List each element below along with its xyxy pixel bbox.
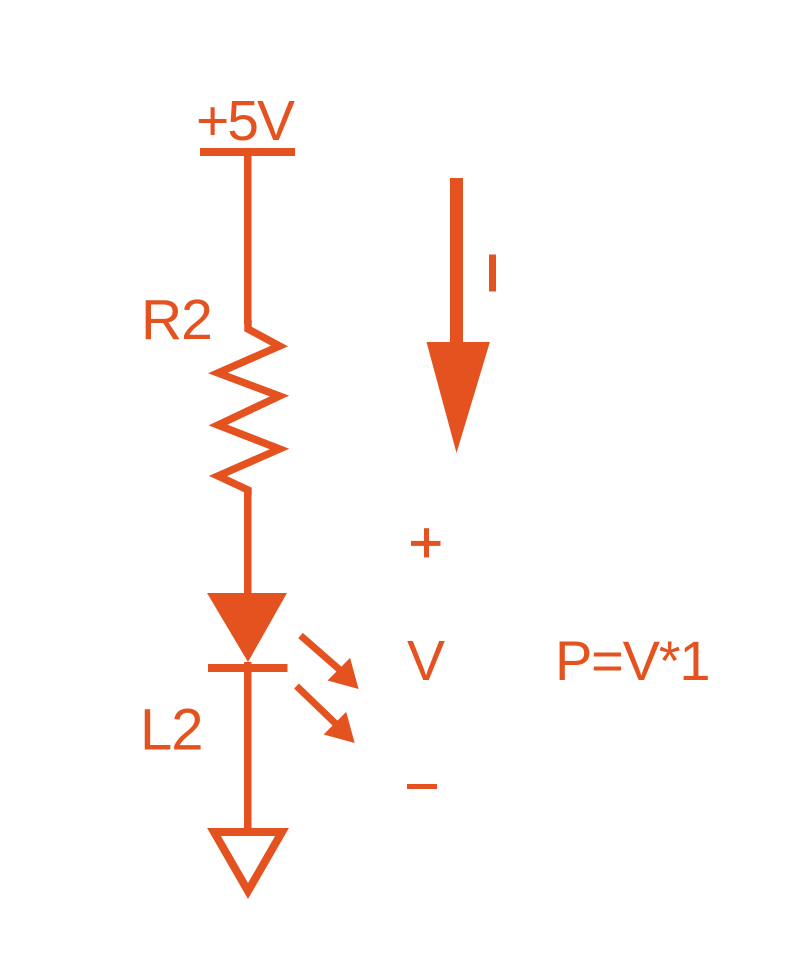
svg-text:V: V	[407, 629, 445, 693]
svg-text:P=V*1: P=V*1	[555, 629, 709, 692]
svg-text:R2: R2	[141, 288, 212, 352]
power rail bar	[200, 148, 295, 156]
ground	[214, 832, 282, 891]
wire from +5V bar to resistor	[244, 156, 252, 324]
wire from resistor to LED	[244, 490, 252, 602]
LED L2 anode triangle	[207, 593, 287, 662]
svg-text:L2: L2	[140, 698, 203, 763]
svg-text:+5V: +5V	[196, 89, 295, 153]
LED light ray arrow 1	[301, 636, 359, 690]
current arrow head	[427, 342, 490, 453]
LED light ray arrow 2	[297, 686, 355, 743]
current arrow shaft	[450, 178, 463, 348]
current label I	[489, 255, 496, 292]
polarity minus sign	[407, 784, 437, 789]
wire from LED to ground	[244, 662, 252, 834]
polarity plus sign	[411, 528, 441, 557]
resistor R2	[218, 320, 280, 495]
LED L2 cathode bar	[208, 664, 288, 672]
